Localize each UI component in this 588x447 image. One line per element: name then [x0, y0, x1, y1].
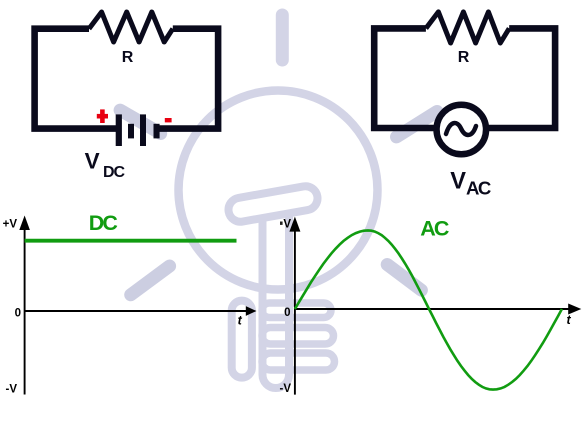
svg-text:AC: AC: [466, 178, 491, 199]
svg-text:V: V: [85, 148, 100, 173]
svg-text:0: 0: [284, 307, 290, 319]
svg-text:AC: AC: [420, 216, 449, 240]
svg-text:-V: -V: [280, 383, 292, 395]
svg-text:DC: DC: [103, 164, 126, 181]
svg-text:0: 0: [15, 308, 21, 320]
svg-text:R: R: [122, 49, 134, 66]
svg-text:R: R: [458, 49, 470, 66]
svg-text:-V: -V: [6, 383, 18, 395]
svg-text:V: V: [283, 219, 291, 231]
svg-text:V: V: [450, 169, 466, 195]
svg-text:+V: +V: [3, 219, 18, 231]
svg-text:DC: DC: [89, 211, 118, 235]
